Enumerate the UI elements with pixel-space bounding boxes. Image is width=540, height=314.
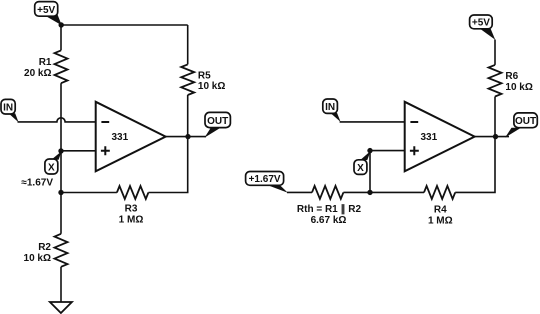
- bottom junction dot (right): [367, 190, 372, 195]
- power label +5V (left): [35, 2, 62, 26]
- power label +5V (right): [470, 15, 496, 40]
- svg-text:R4: R4: [434, 204, 447, 215]
- svg-text:R6: R6: [505, 71, 518, 82]
- svg-text:+1.67V: +1.67V: [249, 174, 281, 185]
- svg-text:R1: R1: [39, 57, 52, 68]
- wire node X down to bottom rail (right): [369, 151, 371, 193]
- svg-text:1 MΩ: 1 MΩ: [119, 215, 144, 226]
- wire op-amp output (right): [475, 136, 509, 138]
- output junction dot (right): [493, 134, 498, 139]
- svg-text:X: X: [357, 163, 364, 174]
- svg-text:Rth = R1 ∥ R2: Rth = R1 ∥ R2: [297, 204, 362, 215]
- resistor R4: [424, 186, 455, 227]
- wire R6 bottom to output node: [494, 97, 496, 137]
- svg-text:R2: R2: [38, 242, 51, 253]
- resistor R2: [24, 234, 68, 267]
- svg-text:10 kΩ: 10 kΩ: [24, 253, 51, 264]
- wire IN to op-amp inverting input (right): [340, 121, 405, 123]
- svg-text:331: 331: [421, 132, 438, 143]
- node X junction dot (right): [367, 148, 372, 153]
- wire R4 left to node X junction: [343, 191, 424, 193]
- wire output node down to R4 (right): [455, 137, 495, 193]
- node label X (left): [45, 151, 62, 174]
- svg-text:OUT: OUT: [515, 116, 536, 127]
- input label IN (left): [1, 99, 19, 122]
- wire +5V to R6 top: [494, 40, 496, 65]
- resistor R3: [117, 186, 148, 226]
- svg-text:10 kΩ: 10 kΩ: [505, 82, 532, 93]
- svg-text:R3: R3: [125, 204, 138, 215]
- voltage source label +1.67V: [246, 172, 288, 193]
- node X junction dot (left): [58, 148, 63, 153]
- wire R3 left to node X column: [61, 192, 117, 194]
- wire Rth left to +1.67V source: [287, 191, 312, 193]
- wire +5V top horizontal: [61, 24, 188, 26]
- svg-text:10 kΩ: 10 kΩ: [198, 81, 225, 92]
- wire node X to op-amp non-inverting input (right): [370, 150, 405, 152]
- resistor R1: [24, 50, 67, 83]
- input label IN (right): [323, 99, 341, 122]
- wire output node down to feedback R3: [148, 137, 187, 193]
- output label OUT (right): [505, 113, 537, 138]
- resistor R6: [489, 65, 533, 97]
- op-amp U1 LM331 (left): [96, 102, 166, 172]
- resistor R5: [181, 64, 225, 95]
- resistor Rth (R1 parallel R2 Thevenin): [297, 186, 362, 226]
- svg-text:+5V: +5V: [472, 18, 490, 29]
- wire op-amp output (left): [166, 136, 206, 138]
- op-amp U2 LM331 (right): [405, 102, 475, 172]
- svg-text:≈1.67V: ≈1.67V: [21, 178, 53, 189]
- node label X (right): [354, 151, 371, 174]
- feedback junction dot (left): [58, 190, 63, 195]
- svg-text:1 MΩ: 1 MΩ: [428, 215, 453, 226]
- svg-text:+5V: +5V: [37, 5, 55, 16]
- svg-text:331: 331: [112, 132, 129, 143]
- wire node X down to R2: [60, 151, 62, 234]
- svg-text:IN: IN: [3, 103, 13, 114]
- output label OUT (left): [205, 112, 231, 137]
- node VDD junction dot (left): [59, 22, 64, 27]
- wire R5 bottom to output node: [187, 95, 189, 137]
- wire VDD to R1 top: [60, 25, 62, 50]
- svg-text:OUT: OUT: [207, 116, 228, 127]
- output junction dot (left): [185, 134, 190, 139]
- wire R2 bottom to ground: [60, 267, 62, 302]
- svg-text:6.67 kΩ: 6.67 kΩ: [311, 215, 347, 226]
- wire IN to op-amp inverting input with hop: [18, 118, 96, 122]
- svg-text:IN: IN: [325, 102, 335, 113]
- wire node X to op-amp non-inverting input: [61, 150, 96, 152]
- wire to R5 top: [187, 25, 189, 64]
- svg-text:X: X: [48, 163, 55, 174]
- wire R1 bottom to node X: [60, 83, 62, 151]
- ground: [50, 302, 72, 313]
- svg-text:20 kΩ: 20 kΩ: [24, 68, 51, 79]
